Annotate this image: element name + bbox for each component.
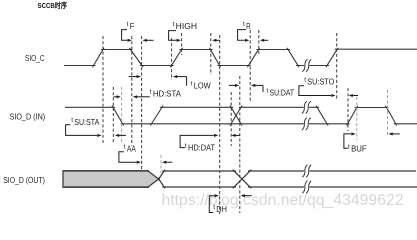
tBUF bracket [344, 134, 351, 148]
dashed line SIO_C rise2 end [181, 33, 183, 55]
tBUF right arrow [392, 133, 400, 135]
SIO_D(OUT) bottom rail 1 [162, 186, 236, 188]
tSU:DAT left arrow [229, 84, 236, 86]
tSU:STA bracket [66, 125, 71, 136]
SIO_D(IN) wire low rail [121, 123, 305, 125]
break SIO_D(OUT) bottom rail [304, 186, 309, 189]
svg-text:t: t [191, 80, 193, 87]
tR right arrow [263, 39, 268, 41]
tHIGH bracket [169, 31, 177, 41]
band bottom edge [63, 186, 149, 188]
SIO_D(OUT) top rail 1 [162, 170, 236, 172]
svg-text:DH: DH [216, 205, 227, 214]
tLOW left arrow [129, 76, 138, 78]
SIO_C falling edge 2 [210, 48, 221, 67]
tSU:DAT right arrow [255, 84, 264, 86]
svg-text:SCCB时序: SCCB时序 [38, 0, 68, 10]
SIO_C wire low 1 [64, 65, 96, 67]
dashed line SIO_C fall2 start [210, 33, 212, 75]
SIO_C rising edge 2 [170, 48, 182, 67]
dashed line data X end [239, 76, 241, 213]
svg-text:HD:STA: HD:STA [153, 89, 182, 98]
tHD:DAT right arrow [235, 134, 240, 136]
svg-text:SIO_C: SIO_C [25, 54, 45, 63]
svg-text:F: F [130, 22, 135, 31]
out X1 diverge down [158, 178, 165, 188]
band converge top [147, 170, 160, 179]
SIO_D(IN) X rising [230, 106, 242, 126]
gray dashed line OUT data valid [160, 155, 162, 173]
SIO_D(IN) rising edge data [150, 106, 163, 126]
tSU:STO right arrow [352, 95, 358, 97]
SIO_D(IN) falling edge merge [316, 106, 328, 126]
SIO_C wire high 1 [101, 49, 133, 51]
svg-text:HIGH: HIGH [176, 22, 197, 31]
svg-text:t: t [266, 87, 268, 94]
SIO_D(IN) START falling edge [112, 106, 124, 126]
tHD:STA left arrow [114, 96, 118, 98]
SIO_C rising edge 3 [247, 48, 259, 67]
svg-text:https://blog.csdn.net/qq_43499: https://blog.csdn.net/qq_43499622 [162, 192, 404, 209]
SIO_C wire high 3 [256, 49, 290, 51]
svg-text:HD:DAT: HD:DAT [188, 143, 215, 152]
break SIO_D(IN) high rail [304, 106, 309, 109]
svg-text:R: R [246, 22, 251, 31]
SIO_C falling edge 1 [129, 48, 143, 67]
dashed line SIO_C rise4 end [336, 33, 338, 100]
dashed line SIO_C fall2 end [219, 35, 221, 214]
svg-text:t: t [348, 143, 350, 150]
svg-text:t: t [127, 21, 129, 28]
svg-text:SIO_D (OUT): SIO_D (OUT) [3, 176, 45, 185]
dashed line SIO_D STOP rise start [347, 88, 349, 131]
tF right arrow [146, 39, 154, 41]
tAA bracket [119, 152, 137, 162]
tDH bracket [209, 196, 214, 213]
dashed line SIO_D fall start [112, 87, 114, 143]
tAA right arrow [166, 161, 173, 163]
svg-text:t: t [71, 117, 73, 124]
SIO_D(OUT) driven band [63, 171, 159, 187]
svg-text:t: t [243, 21, 245, 28]
tLOW elbow [186, 77, 188, 86]
break SIO_C low [304, 64, 309, 67]
tSU:DAT elbow [262, 85, 264, 92]
svg-text:SU:DAT: SU:DAT [270, 88, 295, 97]
gray dashed line SIO_D fall restart [387, 90, 389, 136]
tHD:STA right arrow [136, 96, 150, 98]
SIO_D(OUT) top rail 2 [248, 170, 305, 172]
band top edge [63, 170, 149, 172]
svg-text:SIO_D (IN): SIO_D (IN) [10, 113, 46, 122]
svg-text:t: t [185, 142, 187, 149]
svg-text:t: t [124, 144, 126, 151]
SIO_D(OUT) bottom rail 2b [308, 186, 417, 188]
SIO_C wire high 2 [179, 49, 212, 51]
svg-text:t: t [304, 77, 306, 84]
tLOW right arrow [176, 76, 186, 78]
SIO_C wire low 4 [296, 65, 329, 67]
svg-text:t: t [173, 21, 175, 28]
dashed line SIO_C rise3 end [258, 30, 260, 55]
SIO_C rising edge 4 [326, 48, 338, 67]
tF bracket [122, 30, 128, 41]
SIO_D(IN) falling edge restart [386, 106, 397, 126]
SIO_D(IN) wire low rail after break [308, 123, 349, 125]
gray dashed line SIO_D STOP rise end [356, 97, 358, 140]
svg-text:SU:STA: SU:STA [74, 118, 100, 127]
dashed line SIO_C rise3 start [249, 30, 251, 101]
tSU:STO bracket [299, 86, 331, 96]
SIO_D(OUT) top rail 2b [308, 170, 416, 172]
SIO_C wire low 3 [217, 65, 250, 67]
svg-text:t: t [150, 88, 152, 95]
tHD:DAT bracket [180, 135, 214, 147]
svg-text:SU:STO: SU:STO [307, 78, 334, 87]
band converge bottom [147, 178, 160, 187]
SIO_C wire high 4 [335, 48, 417, 50]
SIO_D(IN) wire high start [65, 106, 115, 108]
tSU:STA right arrow [118, 134, 126, 136]
dashed line SIO_C fall1 end [141, 36, 143, 171]
tR bracket [238, 30, 246, 41]
gray dashed line SIO_D fall end [121, 87, 123, 143]
svg-text:BUF: BUF [351, 144, 367, 153]
SIO_D(IN) wire high STOP [355, 107, 389, 109]
tDH right arrow [244, 195, 252, 197]
SIO_D(IN) wire high rail 2 after break [308, 106, 319, 108]
out X1 diverge up [158, 170, 165, 180]
svg-text:AA: AA [127, 145, 137, 154]
dashed line data X start [230, 92, 232, 146]
break SIO_D(IN) low rail [304, 122, 309, 125]
band left edge [62, 170, 64, 188]
SIO_C rising edge 1 [92, 48, 104, 67]
svg-text:LOW: LOW [194, 81, 212, 90]
SIO_C wire low 2 [140, 65, 174, 67]
SIO_D(OUT) X2 falling [233, 170, 252, 189]
dashed line SIO_C rise1 end [102, 36, 104, 143]
dashed line SIO_C rise2 start [171, 38, 173, 80]
SIO_D(OUT) X2 rising [233, 170, 252, 189]
dashed line SIO_C fall1 start [131, 36, 133, 146]
SIO_D(IN) wire high rail 2 [239, 106, 305, 108]
SIO_C falling edge 3 [287, 48, 299, 67]
SIO_D(IN) X falling [230, 106, 242, 126]
break SIO_D(OUT) top rail [304, 170, 309, 173]
svg-text:t: t [213, 204, 215, 211]
tHIGH right arrow [216, 39, 221, 41]
SIO_D(IN) wire high rail [160, 106, 233, 108]
SIO_D(OUT) bottom rail 2 [248, 186, 305, 188]
SIO_D(IN) wire low end [394, 123, 417, 125]
SIO_D(IN) STOP rising edge [347, 106, 358, 126]
